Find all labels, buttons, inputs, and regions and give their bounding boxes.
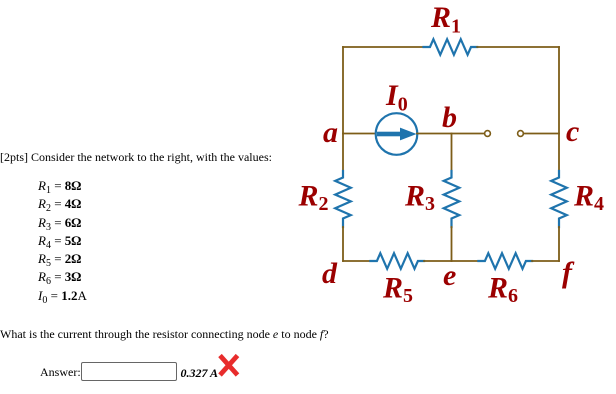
svg-text:R1: R1 xyxy=(430,1,461,38)
resistor R1 xyxy=(424,39,478,55)
svg-text:R3: R3 xyxy=(404,179,435,215)
wire terminal to node c xyxy=(524,133,559,135)
current source I0 circle xyxy=(376,113,418,155)
answer value xyxy=(181,367,219,379)
wire R6 to node f xyxy=(532,260,559,262)
wire top-left segment (a-top to R1) xyxy=(343,46,424,48)
resistor R6 xyxy=(478,253,532,269)
resistor R4 xyxy=(551,171,567,227)
wire current source to terminal (through node b) xyxy=(417,133,484,135)
answer input box xyxy=(81,362,177,381)
open terminal right xyxy=(518,131,524,137)
wire node b vertical (b to R3) xyxy=(451,134,453,172)
wire R5 to node e to R6 xyxy=(424,260,478,262)
svg-text:e: e xyxy=(443,259,456,292)
wire left vertical lower (R2 to d) xyxy=(342,227,344,261)
svg-text:f: f xyxy=(562,256,575,289)
wire top-right segment (R1 to c-top) xyxy=(477,46,559,48)
current source I0 arrow xyxy=(377,128,417,141)
resistor R5 xyxy=(370,253,424,269)
wire node d to R5 xyxy=(343,260,370,262)
svg-text:a: a xyxy=(323,116,338,149)
svg-text:d: d xyxy=(322,257,338,290)
open terminal left xyxy=(485,131,491,137)
svg-text:I0: I0 xyxy=(385,79,408,116)
svg-text:R6: R6 xyxy=(487,272,518,308)
svg-text:c: c xyxy=(566,115,579,148)
wire R4 to node f xyxy=(558,227,560,261)
wire R3 to node e xyxy=(451,227,453,261)
question intro text xyxy=(0,151,272,163)
wire node a to current source xyxy=(343,133,376,135)
svg-text:R2: R2 xyxy=(298,179,329,215)
svg-text:R5: R5 xyxy=(382,272,413,308)
svg-text:R4: R4 xyxy=(573,179,604,215)
svg-text:b: b xyxy=(442,101,457,134)
wire right vertical upper (top to R4, through c) xyxy=(558,47,560,171)
resistor R2 xyxy=(335,171,351,227)
wire left vertical upper (top to R2) xyxy=(342,47,344,171)
answer label xyxy=(40,366,81,378)
values list xyxy=(38,177,87,305)
resistor R3 xyxy=(444,171,460,227)
wrong-answer red X mark xyxy=(220,356,238,376)
question line xyxy=(0,328,329,340)
